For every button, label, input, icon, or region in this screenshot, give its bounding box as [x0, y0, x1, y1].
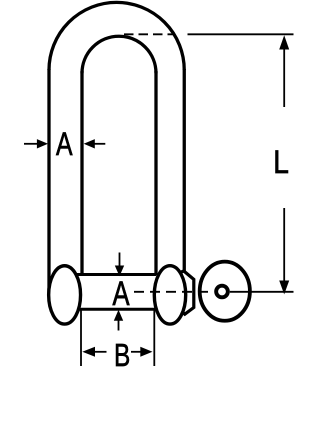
dimension A (leg) left arrow	[24, 143, 39, 145]
pin head center hole	[216, 286, 228, 298]
right pin eye ellipse	[154, 266, 185, 324]
pin dashed centerline	[134, 291, 211, 293]
label L	[275, 150, 288, 173]
left pin eye ellipse	[49, 266, 81, 324]
dimension B right arrow	[131, 351, 141, 353]
label A (leg thickness)	[56, 132, 72, 155]
dimension B right extension line	[153, 310, 155, 366]
shackle inner-right leg line	[154, 71, 157, 276]
dimension L lower arrow	[283, 208, 285, 282]
top extension line for L	[188, 33, 294, 35]
pin collar (hex)	[174, 271, 194, 314]
shackle inner arc	[82, 36, 156, 73]
pin head ellipse	[200, 262, 250, 321]
top dashed centerline from inner apex	[124, 33, 175, 35]
pin shaft bottom line	[64, 308, 156, 311]
shackle outer-left leg line	[47, 69, 50, 295]
shackle inner-left leg line	[80, 71, 83, 276]
pin shaft top line	[64, 273, 156, 276]
label A (pin diameter)	[113, 281, 130, 305]
dimension A (pin) lower arrow	[118, 321, 120, 331]
dimension B left arrow	[94, 351, 107, 353]
dimension L upper arrow	[283, 47, 285, 107]
pin centerline solid right segment	[230, 291, 294, 293]
dimension A (leg) right arrow	[94, 143, 106, 145]
dimension A (pin) upper arrow	[119, 253, 121, 267]
shackle outer arc	[49, 2, 184, 70]
shackle outer-right leg line	[183, 69, 186, 272]
label B (inner width)	[116, 344, 129, 366]
dimension B left extension line	[80, 310, 82, 366]
